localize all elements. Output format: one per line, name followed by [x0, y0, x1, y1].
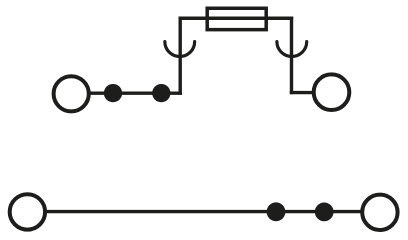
contact fork (right)	[277, 42, 307, 57]
terminal circle (top right)	[314, 74, 350, 110]
terminal circle (bottom left)	[10, 194, 45, 229]
junction dot	[152, 84, 170, 102]
junction dot	[315, 203, 334, 222]
junction dot	[104, 84, 122, 102]
terminal circle (top left)	[54, 76, 89, 111]
wire (top-left horizontal)	[90, 91, 180, 94]
wire (left riser)	[178, 18, 181, 93]
terminal circle (bottom right)	[362, 195, 397, 230]
wire (bottom through-connection)	[46, 210, 362, 213]
wire (stub to top-right terminal)	[292, 91, 314, 94]
fuse	[207, 8, 266, 29]
wire (right riser)	[290, 18, 293, 92]
wire (top run through fuse)	[180, 17, 291, 20]
junction dot	[267, 202, 286, 221]
contact fork (left)	[165, 42, 195, 57]
